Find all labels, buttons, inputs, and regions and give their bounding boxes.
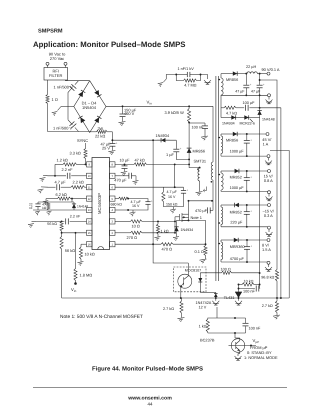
capacitor 2.2 nF pin14 <box>36 214 87 224</box>
footer rule <box>33 387 287 389</box>
AC input terminal right <box>64 62 67 67</box>
capacitor 4.7 uF 16 V pin5 <box>127 199 153 211</box>
optocoupler MOC8107 box <box>174 267 207 292</box>
svg-text:400 V: 400 V <box>124 111 135 116</box>
RFI filter box <box>44 68 68 81</box>
wire out1 bottom <box>221 94 267 96</box>
diode MR856 out2 <box>226 132 241 143</box>
ground arrow 8V return <box>268 264 270 267</box>
bridge diode D2 (top-right) <box>94 90 101 97</box>
wire feedback 90V sense <box>259 79 277 269</box>
resistor 3.3 kOhm <box>70 149 88 165</box>
svg-text:470 Ω: 470 Ω <box>162 247 173 252</box>
svg-text:3.3 kΩ: 3.3 kΩ <box>70 150 81 155</box>
svg-text:1N4148: 1N4148 <box>262 117 275 121</box>
svg-text:MR856: MR856 <box>193 148 206 153</box>
svg-text:MOC8107: MOC8107 <box>185 268 201 272</box>
svg-text:470 µF: 470 µF <box>114 178 127 183</box>
svg-text:1 nF/500 V: 1 nF/500 V <box>53 126 72 131</box>
svg-text:100 nF: 100 nF <box>243 290 256 294</box>
svg-text:150 kΩ: 150 kΩ <box>166 203 178 207</box>
bridge diode D4 (bottom-right) <box>94 116 101 123</box>
svg-text:47 kΩ: 47 kΩ <box>135 158 145 163</box>
svg-text:44: 44 <box>148 402 153 407</box>
transistor Q1 MOSFET note1 <box>175 213 189 222</box>
resistor 2.7 kOhm divider <box>262 281 279 313</box>
wire clamp row <box>112 139 176 141</box>
terminal Vin sense <box>71 281 77 294</box>
diode 1N4934 crowbar <box>221 115 240 125</box>
secondary winding W1 <box>219 74 224 96</box>
resistor 4.7 MOhm <box>176 75 200 88</box>
capacitor 47 uF 25 V <box>100 140 117 150</box>
svg-text:15: 15 <box>88 232 91 235</box>
ground pin12 row <box>43 199 49 205</box>
wire pin9 left corner <box>54 164 56 176</box>
resistor 22 kOhm 2W <box>90 127 113 138</box>
svg-text:MR856: MR856 <box>226 138 238 142</box>
wire out2 top <box>221 133 229 135</box>
svg-text:1N4742A: 1N4742A <box>196 301 212 305</box>
ground arrow zener <box>212 297 219 305</box>
wire out3 top <box>221 170 231 172</box>
svg-text:96.8 kΩ: 96.8 kΩ <box>261 275 274 279</box>
capacitor 100 uF crowbar <box>236 101 261 111</box>
wire out4 bottom <box>221 226 267 228</box>
wire Y-cap right <box>201 75 208 80</box>
wire pin4 row <box>115 209 128 211</box>
capacitor 1000 uF out3 <box>230 171 253 191</box>
ground arrow 15V return <box>266 194 273 201</box>
wire bottom bus <box>62 297 290 299</box>
svg-text:FILTER: FILTER <box>49 73 63 78</box>
ground pin10 row <box>40 175 49 181</box>
ground 1k gate <box>155 234 161 241</box>
resistor 680 kOhm pin5 <box>111 197 130 206</box>
ground 2.7k opto <box>178 313 185 322</box>
ground arrow 8V return glyph <box>265 267 272 271</box>
resistor 10 kOhm pin16 <box>79 244 94 259</box>
wire standby rc top <box>216 307 218 318</box>
transistor Q2 BC237B <box>200 333 245 352</box>
capacitor 4.7 uF 16 V with resistor 150 kOhm subcircuit <box>162 187 189 209</box>
wire LED cathode <box>200 285 216 293</box>
svg-text:4.7 µF: 4.7 µF <box>55 180 67 185</box>
resistor 4.7 kOhm crowbar <box>221 106 237 115</box>
diode bridge D1-D4 outline <box>74 81 106 133</box>
terminal 90V output <box>262 67 280 75</box>
wire Y-cap top <box>166 74 177 79</box>
wire out1 diode to ind <box>241 73 247 75</box>
capacitor 47 uF b <box>251 74 265 96</box>
resistor 56 kOhm lower <box>60 233 75 253</box>
label Note 1 <box>191 215 202 220</box>
wire out2 to terminal <box>241 133 266 135</box>
wire out4 to terminal <box>243 204 268 206</box>
wire pin8 row <box>115 163 134 165</box>
capacitor 10 uF pin8 <box>120 158 131 172</box>
svg-text:470 µF: 470 µF <box>195 209 208 213</box>
svg-text:MC44603P: MC44603P <box>97 193 102 214</box>
resistor 47 kOhm pin8 <box>134 158 190 166</box>
ground 1N4934 gs <box>173 234 179 241</box>
diode MR856 out1 <box>226 71 241 82</box>
capacitor 100 nF vcc <box>189 123 208 136</box>
transformer aux winding <box>197 168 199 181</box>
bridge diode D1 (top-left) <box>78 90 85 97</box>
terminal 15V output <box>264 170 274 184</box>
wire vcc chain upper <box>188 123 190 146</box>
label 90 Vac to 270 Vac <box>49 52 66 62</box>
wire opto emitter <box>180 288 182 299</box>
resistor 56 kOhm upper <box>47 220 63 232</box>
svg-text:12: 12 <box>88 198 91 201</box>
label NORMAL MODE <box>244 355 278 360</box>
svg-text:MR856: MR856 <box>226 78 238 82</box>
svg-text:25 V: 25 V <box>102 145 110 150</box>
shunt regulator TL431 <box>224 284 242 300</box>
diode 1N4934 gate-source <box>174 220 193 233</box>
optocoupler phototransistor <box>178 274 192 288</box>
ground arrow 90V return <box>266 97 273 104</box>
svg-text:10: 10 <box>88 175 91 178</box>
zener diode 1N4742A 12 V <box>196 292 218 309</box>
label SMT31 <box>194 159 207 164</box>
ground 100nF vcc <box>201 136 208 140</box>
wire out3 to terminal <box>243 170 268 172</box>
resistor 270 Ohm pin2 <box>115 231 176 240</box>
diode MR852 out3 <box>230 169 243 180</box>
svg-text:10 µF: 10 µF <box>120 158 131 163</box>
wire bottom ac rail <box>48 131 90 133</box>
wire gate vertical <box>174 217 176 233</box>
terminal 45V return <box>267 155 270 158</box>
op-amp controller U1 MC44603P body <box>92 158 110 250</box>
resistor 10 Ohm pin3 <box>115 220 176 229</box>
svg-text:2.2 nF: 2.2 nF <box>70 214 81 218</box>
svg-text:100 Ω: 100 Ω <box>221 267 231 271</box>
wire out5 to terminal <box>242 239 267 241</box>
resistor 1.2 kOhm pin9 <box>55 157 87 166</box>
resistor 470 kOhm <box>42 202 50 210</box>
resistor 96.8 kOhm divider <box>261 270 278 299</box>
wire source row <box>177 219 206 221</box>
capacitor 1 nF/1 kV <box>176 67 201 77</box>
chassis ground Y-cap left <box>158 79 167 87</box>
svg-text:270 Ω: 270 Ω <box>127 235 138 240</box>
svg-text:16: 16 <box>88 243 91 246</box>
wire pin6 row <box>115 186 184 188</box>
svg-text:0.1 Ω: 0.1 Ω <box>195 249 204 254</box>
svg-text:1N4934: 1N4934 <box>181 228 194 232</box>
svg-text:1 Ω: 1 Ω <box>52 97 58 102</box>
bridge diode D3 (bottom-left) <box>78 116 85 123</box>
svg-text:1000 µF: 1000 µF <box>230 186 245 190</box>
wire pin13 top rail <box>38 198 74 202</box>
transformer primary winding <box>211 106 213 201</box>
svg-text:13: 13 <box>88 209 91 212</box>
terminal 15V return <box>268 191 271 194</box>
wire out2 bottom <box>221 155 267 157</box>
capacitor 100 nF tl431 <box>239 286 261 294</box>
capacitor 1 nF/500 V top <box>54 81 79 107</box>
earth ground Y-cap right <box>204 80 211 84</box>
svg-text:1 kΩ: 1 kΩ <box>199 324 207 328</box>
wire x153 to opto <box>153 244 188 263</box>
resistor 1 kOhm gate <box>156 221 168 234</box>
svg-text:0.8 A: 0.8 A <box>264 178 273 183</box>
terminal 8V output <box>262 239 271 253</box>
svg-text:Application: Monitor Pulsed–Mo: Application: Monitor Pulsed–Mode SMPS <box>33 40 185 49</box>
wire opto collector <box>187 263 189 275</box>
svg-text:1N4148: 1N4148 <box>77 204 88 208</box>
ground pin16 <box>78 259 84 266</box>
title <box>33 40 185 49</box>
svg-text:4.7 MΩ: 4.7 MΩ <box>184 83 196 87</box>
wire 22k corner down <box>111 132 113 141</box>
wire RFI right output <box>66 79 90 82</box>
wire feedback bus x289 <box>270 151 289 299</box>
chassis ground Y caps <box>52 107 61 116</box>
IC left pin boxes 9-16 <box>87 162 93 247</box>
terminal 45V output <box>262 133 272 147</box>
svg-text:2.2 kΩ: 2.2 kΩ <box>73 180 84 185</box>
capacitor 150 uF 400 V bulk <box>120 106 137 121</box>
svg-text:Note 1: Note 1 <box>191 215 202 220</box>
secondary winding W4 <box>219 205 223 227</box>
inductor 22 uH <box>246 65 257 74</box>
svg-text:1: NORMAL MODE: 1: NORMAL MODE <box>244 355 278 360</box>
wire out1 top <box>221 73 229 75</box>
AC input terminal left <box>46 62 49 67</box>
svg-text:47 µF: 47 µF <box>251 90 261 94</box>
wire BC237 base <box>229 345 236 347</box>
ground 2.7k divider <box>273 313 280 320</box>
svg-text:in: in <box>150 101 153 105</box>
bridge label D1 - D4 1N5404 <box>82 101 97 111</box>
secondary winding W3 <box>219 171 224 191</box>
wire crowbar row to divider <box>260 108 282 299</box>
ground 150k subcircuit <box>170 209 176 213</box>
wire Vin rail <box>106 105 213 107</box>
ground 22 nF <box>35 211 40 215</box>
svg-text:1N5404: 1N5404 <box>82 105 97 110</box>
svg-text:47 µF: 47 µF <box>235 90 245 94</box>
ground pin14 row <box>28 221 36 227</box>
ground arrow -15V return <box>266 229 273 236</box>
svg-text:100 nF: 100 nF <box>249 326 262 330</box>
wire pin13 row <box>33 209 87 211</box>
capacitor 220 uF out4 <box>230 205 252 227</box>
ground aux winding <box>196 181 203 196</box>
svg-text:12 V: 12 V <box>199 305 207 309</box>
resistor 100 Ohm <box>221 267 260 274</box>
resistor 1 kOhm standby <box>199 317 246 334</box>
svg-text:kΩ: kΩ <box>42 206 47 210</box>
svg-text:MCR22-6: MCR22-6 <box>240 121 255 125</box>
wire vcc chain to aux winding <box>188 156 200 169</box>
capacitor 2.2 nF pin10 <box>48 167 87 179</box>
optocoupler LED <box>198 275 202 285</box>
svg-text:270 Vac: 270 Vac <box>50 56 64 61</box>
terminal -15V output <box>263 204 275 218</box>
svg-text:2W: 2W <box>97 127 103 131</box>
ground 470 kOhm <box>47 211 52 215</box>
svg-text:4.7 µF: 4.7 µF <box>167 190 178 194</box>
svg-text:22 kΩ: 22 kΩ <box>95 133 105 138</box>
svg-text:1 µF: 1 µF <box>166 152 174 157</box>
ground 0.1 Ohm <box>200 256 207 264</box>
svg-text:11: 11 <box>88 186 91 189</box>
svg-text:90 V/0.1 A: 90 V/0.1 A <box>262 67 280 72</box>
wire drain to primary <box>189 200 214 202</box>
net label Vin <box>147 99 153 105</box>
svg-text:2.7 kΩ: 2.7 kΩ <box>163 307 174 311</box>
diode MBR360 out5 <box>230 238 245 249</box>
diode MR852 out4 <box>230 203 243 215</box>
svg-text:MR852: MR852 <box>230 175 242 179</box>
IC right pin boxes 1-8 <box>110 162 116 247</box>
label STAND-BY <box>247 350 272 355</box>
wire bridge left corner <box>61 106 74 108</box>
junction below 3.9k <box>188 122 190 124</box>
capacitor 470 uF pin7 <box>114 173 136 183</box>
secondary winding W2 <box>219 134 223 156</box>
terminal 90V return <box>268 94 271 97</box>
resistor 470 Ohm sense <box>161 243 206 252</box>
capacitor 4700 uF out5 <box>230 240 253 262</box>
resistor 1 ohm <box>46 95 58 104</box>
svg-text:Note 1: 500 V/8 A N-Channel MO: Note 1: 500 V/8 A N-Channel MOSFET <box>60 314 143 320</box>
svg-text:SMT31: SMT31 <box>194 159 207 164</box>
capacitor 22 nF <box>29 202 41 210</box>
resistor 0.1 Ohm sense <box>195 220 208 255</box>
ground arrow TL431 <box>235 297 242 305</box>
wire out5 bottom <box>221 261 267 263</box>
wire pin15 row <box>61 232 87 234</box>
diode 1N4148 crowbar <box>257 108 274 122</box>
capacitor 470 uF aux <box>195 201 213 214</box>
resistor 3.9 kOhm 5 W <box>165 106 191 122</box>
thyristor MCR22-6 <box>240 115 260 125</box>
figure caption <box>92 365 203 372</box>
svg-text:10 kΩ: 10 kΩ <box>85 252 95 257</box>
svg-text:100 nF: 100 nF <box>192 125 205 129</box>
capacitor 1 nF/500 V bottom <box>53 107 79 132</box>
wire drain up <box>188 200 190 214</box>
svg-text:1 nF/500 V: 1 nF/500 V <box>54 85 73 90</box>
wire RFI left output down <box>47 80 49 95</box>
wire out4 top <box>221 204 231 206</box>
ground 47uF <box>108 151 115 155</box>
resistor 1.8 MOhm <box>74 233 92 281</box>
svg-text:10 Ω: 10 Ω <box>132 224 140 229</box>
wire out1 to terminal <box>257 73 267 75</box>
svg-text:1.2 kΩ: 1.2 kΩ <box>57 157 68 162</box>
resistor 10 kOhm tl431 <box>239 280 260 287</box>
ground 150uF <box>119 122 126 126</box>
svg-text:Figure 44. Monitor Pulsed–Mode: Figure 44. Monitor Pulsed–Mode SMPS <box>92 365 203 372</box>
svg-text:3.9 kΩ/5 W: 3.9 kΩ/5 W <box>165 110 185 115</box>
svg-text:56 kΩ: 56 kΩ <box>47 222 57 226</box>
ground 10uF <box>121 172 128 176</box>
secondary winding W5 <box>219 240 223 262</box>
ground pin11 row <box>38 187 49 193</box>
svg-text:1 A: 1 A <box>263 142 269 147</box>
capacitor 4.7 uF pin11 <box>48 180 66 191</box>
svg-text:6.2 kΩ: 6.2 kΩ <box>56 192 67 197</box>
svg-text:1 nF/1 kV: 1 nF/1 kV <box>178 67 195 71</box>
ground pin4 subcircuit <box>130 210 136 216</box>
svg-text:1N4934: 1N4934 <box>222 121 235 125</box>
svg-text:SYNC: SYNC <box>77 138 88 143</box>
wire 1 ohm to bottom ac rail <box>47 104 49 132</box>
junction 150uF <box>122 105 124 107</box>
svg-text:µP: µP <box>256 340 260 344</box>
svg-text:2.2 nF: 2.2 nF <box>62 167 74 172</box>
svg-text:4.7 kΩ: 4.7 kΩ <box>226 111 237 115</box>
svg-text:100 µF: 100 µF <box>243 101 256 105</box>
net label SYNC <box>77 138 88 143</box>
wire 56k to bottom bus <box>61 249 63 298</box>
wire base from Vup <box>236 345 256 347</box>
svg-text:16 V: 16 V <box>168 195 176 199</box>
wire pin1 row <box>115 243 161 245</box>
wire sense line vertical <box>259 95 261 288</box>
svg-text:BC237B: BC237B <box>200 337 215 342</box>
svg-text:nF: nF <box>29 206 33 210</box>
terminal VuP <box>253 338 260 344</box>
capacitor 100 nF standby <box>243 318 262 333</box>
svg-text:in: in <box>74 289 77 293</box>
resistor 6.2 kOhm pin12 <box>46 192 87 200</box>
page header SMPSRM <box>38 29 63 35</box>
resistor 2.7 kOhm opto <box>163 298 183 313</box>
svg-text:1000 µF: 1000 µF <box>230 149 245 153</box>
svg-text:4700 µF: 4700 µF <box>230 257 245 261</box>
svg-text:16 V: 16 V <box>132 204 140 208</box>
footer page number <box>148 402 153 407</box>
svg-text:220 µF: 220 µF <box>230 220 243 224</box>
label FROM uP <box>250 345 268 350</box>
wire long vertical x153 <box>152 140 154 244</box>
transformer core <box>216 76 218 281</box>
diode 1N4934 clamp <box>156 133 170 142</box>
svg-text:SMPSRM: SMPSRM <box>38 29 63 35</box>
label Lp arrow <box>203 187 206 193</box>
junction 3.9k on rail <box>188 105 190 107</box>
svg-text:0.3 A: 0.3 A <box>264 213 273 218</box>
terminal 8V return <box>267 261 270 264</box>
svg-text:1.8 MΩ: 1.8 MΩ <box>80 273 93 278</box>
capacitor 1000 uF out2 <box>230 134 253 156</box>
resistor 2.2 kOhm pin11 <box>61 180 87 189</box>
wire sync stub <box>85 143 87 149</box>
terminal -15V return <box>268 226 271 229</box>
svg-text:2.7 kΩ: 2.7 kΩ <box>262 304 273 308</box>
footer url <box>127 396 172 402</box>
wire LED anode <box>200 273 221 275</box>
svg-text:22 µH: 22 µH <box>246 65 256 69</box>
svg-text:MR852: MR852 <box>230 210 242 214</box>
svg-text:MBR360: MBR360 <box>230 245 245 249</box>
svg-text:1N4934: 1N4934 <box>156 133 170 138</box>
ground 470uF <box>133 181 139 185</box>
capacitor 1 uF clamp <box>166 140 189 159</box>
diode 1N4148 pin13 <box>72 202 88 210</box>
wire out3 bottom <box>221 190 267 192</box>
svg-text:680 kΩ: 680 kΩ <box>111 202 123 206</box>
